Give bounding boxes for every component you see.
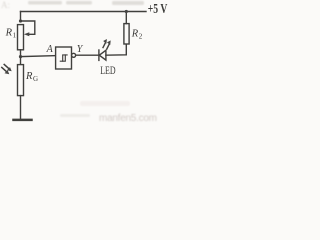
- svg-text:G: G: [33, 75, 38, 83]
- svg-text:+5 V: +5 V: [148, 1, 168, 16]
- inverter bubble at gate output: [72, 53, 76, 57]
- svg-text:R: R: [5, 28, 13, 39]
- svg-text:A:: A:: [1, 0, 10, 10]
- resistor RG (photoresistor body): [18, 65, 24, 96]
- node: junction above R1: [19, 19, 22, 22]
- svg-text:R: R: [25, 71, 33, 82]
- light arrow 2 at RG: [2, 67, 6, 71]
- wire: R2 top to rail: [125, 12, 127, 24]
- svg-text:manfen5.com: manfen5.com: [99, 113, 157, 124]
- light arrow 1 at RG: [4, 64, 8, 68]
- faint bleed-through smudges (decorative): [1, 0, 144, 117]
- ground: [14, 119, 32, 122]
- wire: LED anode to R2 branch: [106, 44, 126, 55]
- svg-text:LED: LED: [100, 65, 115, 77]
- LED emission arrow 1: [103, 43, 105, 48]
- svg-text:1: 1: [13, 32, 17, 40]
- wire: bus to gate input A: [21, 56, 58, 57]
- node: rail junction at R2: [125, 10, 128, 13]
- LED cathode bar: [98, 50, 100, 60]
- resistor R1 (potentiometer body): [18, 25, 24, 50]
- svg-text:2: 2: [139, 32, 143, 40]
- hysteresis symbol inside gate: [60, 55, 67, 61]
- wire: R1 bottom to bus junction: [20, 50, 22, 57]
- wire: left drop from rail to R1: [20, 12, 22, 22]
- svg-text:A: A: [46, 44, 54, 55]
- wire: RG bottom to ground: [20, 96, 22, 120]
- LED emission arrow 2: [107, 44, 109, 49]
- LED triangle: [99, 50, 106, 60]
- wire: gate output Y to LED: [76, 54, 99, 56]
- schmitt trigger gate U1 box: [56, 47, 72, 69]
- wiper arrowhead of R1: [24, 32, 29, 36]
- svg-text:R: R: [131, 28, 139, 39]
- node: bus junction: [19, 55, 22, 58]
- wire: R1 wiper return loop: [21, 21, 35, 34]
- wire: +5V top rail: [21, 11, 147, 13]
- wire: drop to RG: [20, 57, 22, 65]
- resistor R2 body: [124, 24, 129, 44]
